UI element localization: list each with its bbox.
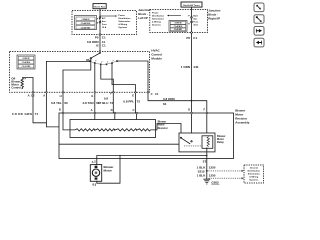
conn id table 1	[75, 16, 97, 30]
resistor R1	[74, 129, 95, 131]
svg-text:Relay: Relay	[217, 140, 224, 144]
svg-text:1250: 1250	[209, 174, 216, 178]
svg-text:M: M	[95, 171, 98, 175]
svg-text:Distribution: Distribution	[152, 14, 165, 17]
svg-text:1250: 1250	[209, 165, 216, 169]
tap dot C	[136, 129, 137, 130]
svg-text:0.8 TAN: 0.8 TAN	[83, 101, 94, 105]
wire fuse2 down to relay (1 ORN 440)	[191, 23, 193, 141]
svg-text:H: H	[188, 24, 190, 26]
wire rheostat to pin A C2	[22, 78, 33, 93]
wire 0.8 LT BLU	[113, 92, 115, 130]
svg-text:F: F	[204, 108, 206, 112]
svg-text:Systems: Systems	[152, 23, 162, 26]
wire from hot box 1 to fuse	[99, 9, 101, 17]
svg-text:0.8 YEL: 0.8 YEL	[51, 101, 62, 105]
dashed arrow ground to ground distribution box	[209, 177, 242, 179]
svg-text:A: A	[92, 160, 94, 164]
ground distribution dashed box	[244, 165, 264, 183]
svg-text:Assembly: Assembly	[235, 120, 250, 124]
motor feed bus L1	[97, 156, 207, 165]
HVAC control module dashed box	[10, 52, 150, 93]
resistor chain entry from pin B	[62, 112, 63, 113]
svg-text:Module: Module	[151, 57, 162, 61]
icon arrow diagonal 1	[257, 5, 261, 9]
svg-text:64: 64	[163, 102, 167, 106]
contact wire to pin E (PPL)	[112, 64, 135, 93]
junction block left I/P dashed box	[72, 11, 137, 35]
svg-text:Distribution: Distribution	[248, 170, 261, 173]
wire from hot box 2 to fuse 2	[191, 7, 193, 17]
svg-text:Power: Power	[118, 15, 125, 17]
blower motor box	[90, 165, 101, 182]
resistor R2	[95, 129, 115, 131]
switch contacts arc	[89, 61, 90, 62]
icon arrow right	[256, 29, 262, 33]
dashed arrow splice to ground distribution box	[209, 170, 242, 172]
svg-text:A/C: A/C	[102, 17, 106, 20]
svg-text:D: D	[188, 108, 190, 112]
svg-text:Ground: Ground	[250, 168, 259, 170]
fuse BLO 30A	[191, 17, 193, 19]
svg-text:B: B	[59, 107, 61, 111]
wire 0.8 DK GRN 71 loop box	[33, 92, 46, 123]
relay coil	[202, 136, 213, 149]
wire resistor chain to relay	[150, 124, 181, 138]
wire coil to ground	[206, 136, 208, 179]
blower motor relay box	[179, 133, 215, 152]
svg-text:0.8 ORN: 0.8 ORN	[163, 97, 175, 101]
svg-text:P: P	[188, 15, 190, 17]
conn id table 3	[17, 55, 35, 69]
svg-text:440: 440	[193, 65, 198, 69]
button pan down-right	[254, 3, 264, 47]
svg-text:D: D	[111, 108, 113, 112]
connector pin bumps	[32, 92, 34, 94]
svg-text:E: E	[203, 160, 205, 164]
junction block right I/P dashed box	[150, 10, 208, 33]
svg-text:0.8: 0.8	[104, 97, 109, 101]
svg-text:& Wiring: & Wiring	[118, 24, 127, 26]
blower motor resistor inner box	[70, 120, 156, 138]
svg-text:E: E	[97, 23, 99, 25]
contact wire to pin G (TAN)	[94, 64, 96, 93]
arrow to power distribution text	[100, 15, 115, 17]
switch wiper arm	[91, 53, 100, 58]
svg-text:F: F	[97, 18, 99, 20]
tap dot A	[94, 129, 95, 130]
fuse A/C 10A	[99, 17, 101, 19]
svg-text:Schematics: Schematics	[248, 173, 261, 176]
svg-text:CONN ID: CONN ID	[174, 23, 182, 25]
svg-text:1 ORN: 1 ORN	[181, 65, 190, 69]
svg-text:Power: Power	[152, 12, 159, 14]
svg-text:Hot At All Times: Hot At All Times	[183, 4, 200, 7]
svg-text:& Wiring: & Wiring	[249, 177, 259, 179]
svg-text:C1=48 BLK: C1=48 BLK	[81, 22, 91, 25]
svg-text:60: 60	[64, 101, 68, 105]
motor brush top	[95, 166, 98, 168]
svg-text:Systems: Systems	[118, 26, 128, 29]
svg-text:Resistor: Resistor	[158, 126, 168, 130]
svg-text:71: 71	[35, 112, 39, 116]
blower motor resistor assembly box	[59, 113, 234, 159]
icon arrow left	[256, 41, 262, 45]
svg-text:Left I/P: Left I/P	[138, 16, 148, 20]
motor brush bottom	[95, 177, 98, 179]
svg-text:10 A: 10 A	[102, 26, 107, 29]
svg-text:P: P	[25, 78, 27, 80]
blower switch feed dot	[99, 52, 101, 54]
svg-text:C: C	[151, 92, 153, 96]
motor circle	[92, 169, 99, 176]
svg-text:0.8 PPL: 0.8 PPL	[123, 99, 134, 103]
svg-text:Control: Control	[11, 86, 21, 90]
svg-text:A: A	[28, 93, 30, 97]
svg-text:Schematics: Schematics	[118, 20, 131, 23]
resistor R4	[137, 129, 151, 131]
svg-text:G: G	[91, 94, 93, 98]
svg-text:C1: C1	[155, 92, 159, 96]
svg-text:& Wiring: & Wiring	[152, 21, 161, 23]
relay mechanical dashed link	[184, 145, 202, 147]
ground symbol G202	[203, 179, 210, 184]
wire 0.8 YEL	[62, 92, 64, 113]
svg-text:0.8 DK GRN: 0.8 DK GRN	[12, 112, 32, 116]
junction dot ORN wires	[191, 100, 193, 102]
relay armature	[180, 137, 181, 138]
svg-text:CONN ID: CONN ID	[82, 19, 91, 21]
resistor R3	[115, 129, 137, 131]
tap dot D	[114, 129, 115, 130]
svg-text:Motor: Motor	[104, 169, 113, 173]
svg-text:B: B	[96, 44, 99, 48]
svg-text:E: E	[132, 93, 134, 97]
coil bottom junction dot	[206, 148, 207, 149]
switch contact arc	[90, 61, 117, 64]
svg-text:30 A: 30 A	[193, 24, 198, 27]
svg-text:P6: P6	[186, 36, 190, 40]
svg-text:Aux: Aux	[102, 20, 107, 23]
svg-text:Aux: Aux	[193, 18, 198, 21]
svg-text:G202: G202	[211, 180, 219, 184]
svg-text:CONN ID: CONN ID	[22, 58, 30, 60]
wire 0.8 PPL	[135, 92, 136, 130]
svg-text:Right I/P: Right I/P	[208, 16, 220, 20]
wiper common wire to pin H	[63, 59, 91, 92]
hot box 1 "Hot In Run"	[93, 4, 106, 9]
svg-text:BLO: BLO	[193, 16, 198, 18]
svg-text:C: C	[132, 108, 134, 112]
off contact wire to pin A	[46, 61, 89, 92]
svg-text:B: B	[92, 183, 94, 187]
svg-text:Distribution: Distribution	[118, 17, 131, 20]
icon arrow diagonal 2	[256, 16, 262, 22]
svg-text:Fuse: Fuse	[102, 24, 108, 26]
svg-text:A: A	[91, 108, 93, 112]
svg-text:Schematics: Schematics	[152, 17, 165, 20]
wire 0.8 ORN 64	[148, 92, 207, 136]
svg-text:Fuse: Fuse	[193, 22, 199, 24]
svg-text:C2=48 NAT: C2=48 NAT	[81, 26, 91, 29]
wire fuse to module pin B C1	[99, 23, 101, 53]
svg-text:LT BLU: LT BLU	[98, 101, 108, 105]
contact wire to pin C (ORN)	[118, 61, 148, 92]
wire 0.8 TAN	[94, 92, 96, 130]
svg-text:A: A	[43, 93, 45, 97]
svg-text:1 BLK: 1 BLK	[197, 174, 207, 178]
svg-text:H: H	[60, 94, 62, 98]
svg-text:Hot In Run: Hot In Run	[94, 6, 106, 9]
svg-text:C1: C1	[102, 44, 106, 48]
svg-text:Systems: Systems	[249, 179, 259, 182]
svg-text:73: 73	[137, 99, 141, 103]
svg-text:C1: C1	[193, 36, 197, 40]
motor return wire	[96, 181, 97, 182]
hot box 2 "Hot At All Times"	[181, 2, 202, 7]
contact wire to pin F (LT BLU)	[101, 65, 114, 93]
conn id table 2	[169, 21, 187, 32]
